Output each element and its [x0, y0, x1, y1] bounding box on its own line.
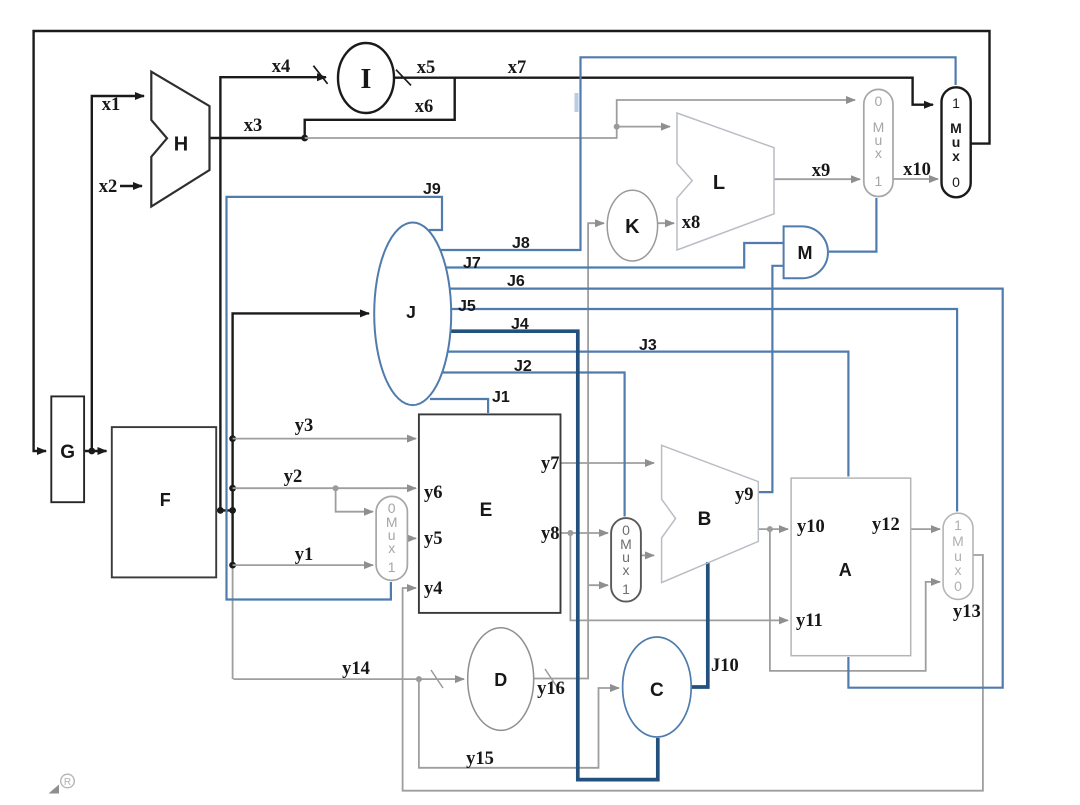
wire x9 from L to top mux input 1	[774, 178, 860, 180]
mux H trapezoid	[151, 72, 209, 207]
svg-text:1: 1	[954, 517, 962, 533]
svg-text:A: A	[839, 560, 852, 580]
svg-text:x10: x10	[903, 160, 931, 180]
wire y16 from D up to K and B-mux input 1	[534, 223, 604, 678]
svg-text:I: I	[361, 64, 372, 95]
svg-text:x5: x5	[417, 58, 436, 78]
svg-text:J9: J9	[423, 181, 441, 198]
svg-text:C: C	[650, 680, 664, 701]
wire G output to F input	[84, 450, 106, 452]
svg-text:x: x	[388, 540, 395, 556]
mux top gray (0 Mux 1)	[864, 89, 893, 196]
mux y13 (1 Mux 0)	[943, 513, 973, 599]
register G	[51, 396, 84, 502]
node x3/x6 junction	[301, 135, 308, 142]
svg-text:J6: J6	[507, 273, 525, 290]
wire y2 into E input y6	[233, 487, 416, 489]
wire x6 from x7 node down to x3 node	[305, 78, 455, 138]
wire J3 from J to A top	[446, 352, 848, 477]
svg-text:y13: y13	[953, 602, 981, 622]
svg-text:y8: y8	[541, 524, 560, 544]
node y14 tap	[416, 676, 422, 682]
svg-text:G: G	[60, 442, 75, 463]
svg-text:0: 0	[954, 578, 962, 594]
wire y14 to D	[233, 678, 464, 680]
svg-text:x9: x9	[812, 161, 831, 181]
block K ellipse	[607, 190, 657, 261]
bus slash on x4	[313, 66, 327, 84]
svg-text:J10: J10	[711, 656, 739, 676]
svg-text:x4: x4	[272, 57, 291, 77]
svg-text:y15: y15	[466, 749, 494, 769]
wire F output bus vertical with J input	[233, 313, 369, 566]
svg-text:M: M	[798, 243, 813, 263]
block I ellipse	[338, 43, 394, 113]
wire x3 gray extension to L and top mux 0 input	[305, 100, 855, 138]
svg-text:y12: y12	[872, 515, 900, 535]
svg-text:y2: y2	[284, 467, 303, 487]
wire F output short	[216, 509, 232, 511]
wire x1 from G/F node up into H input	[92, 96, 144, 451]
svg-text:B: B	[698, 509, 712, 530]
svg-text:J8: J8	[512, 235, 530, 252]
block J ellipse	[374, 222, 451, 405]
wire x2 branch into H input	[120, 185, 142, 187]
bus slash on y16	[545, 669, 557, 687]
svg-text:D: D	[494, 670, 507, 690]
mux near B (0 Mux 1)	[611, 518, 641, 602]
wire J5 from J to y13-mux select	[450, 309, 957, 512]
mux B trapezoid	[662, 445, 759, 582]
svg-text:1: 1	[875, 173, 883, 189]
svg-text:y16: y16	[537, 679, 565, 699]
svg-text:y5: y5	[424, 529, 443, 549]
wire x5/x7 from I to black Mux input 1	[394, 78, 933, 105]
wire x4 from F output node up to I	[220, 77, 326, 510]
register A	[791, 478, 911, 656]
bus slash on x5	[396, 70, 411, 86]
svg-text:J1: J1	[492, 389, 510, 406]
wire J2 from J to B-mux select	[440, 373, 625, 517]
svg-text:1: 1	[622, 581, 630, 597]
wire J1 from J to E top	[430, 399, 488, 413]
wire J9 from J to E-mux select	[227, 197, 443, 600]
svg-text:x8: x8	[682, 213, 701, 233]
wire y3 into E	[233, 438, 416, 440]
svg-text:J5: J5	[458, 298, 476, 315]
svg-text:0: 0	[875, 93, 883, 109]
svg-text:1: 1	[388, 559, 396, 575]
svg-text:J4: J4	[511, 316, 529, 333]
wire y12 from A to y13-mux input 1	[911, 528, 940, 530]
mux L trapezoid	[677, 113, 774, 250]
svg-text:F: F	[160, 490, 171, 510]
svg-text:R: R	[64, 777, 71, 788]
svg-text:x1: x1	[102, 95, 121, 115]
svg-text:x2: x2	[99, 177, 118, 197]
wire J8 from J to black mux select	[438, 57, 956, 250]
block E	[419, 414, 561, 613]
svg-text:J7: J7	[463, 255, 481, 272]
wire J10 from C to B bottom	[691, 562, 708, 687]
node F output dot 1	[217, 507, 224, 514]
wire y11 from y8 node into A	[570, 533, 788, 620]
wire K output x8 into L	[658, 222, 674, 224]
mux near E (0 Mux 1)	[376, 496, 407, 580]
node y2 tap	[229, 485, 236, 492]
wire y8 from E to B-mux input 0	[561, 532, 609, 534]
svg-text:0: 0	[952, 174, 960, 190]
svg-text:x: x	[952, 148, 960, 164]
wire y13 feedback from y13-mux output to E input y4	[403, 555, 983, 791]
svg-text:M: M	[952, 533, 964, 549]
svg-text:K: K	[625, 216, 640, 238]
wire y7 from E to B top input	[561, 462, 655, 464]
and gate M	[784, 226, 828, 278]
svg-text:L: L	[713, 172, 725, 194]
wire artifact light blue	[575, 93, 579, 112]
svg-text:x: x	[623, 562, 630, 578]
svg-text:y11: y11	[796, 611, 823, 631]
wire y2 branch into E-mux input 0	[336, 488, 373, 512]
node y2 branch	[333, 485, 339, 491]
node y3 tap	[229, 435, 236, 442]
watermark logo	[49, 774, 75, 793]
node y8 tap	[567, 530, 573, 536]
svg-text:y9: y9	[735, 485, 754, 505]
wire J7 from J to M input	[444, 243, 784, 268]
block D ellipse	[468, 628, 534, 731]
svg-text:y3: y3	[295, 416, 314, 436]
svg-text:x6: x6	[415, 97, 434, 117]
svg-text:J3: J3	[639, 337, 657, 354]
svg-text:1: 1	[952, 95, 960, 111]
bus slash on y14	[431, 670, 443, 688]
block C ellipse	[623, 637, 692, 737]
wire x3 from H output	[211, 137, 305, 139]
node y1 tap	[229, 562, 236, 569]
svg-text:E: E	[480, 500, 493, 521]
wire M output to gray mux select	[829, 198, 876, 252]
svg-text:y14: y14	[342, 659, 370, 679]
wire y16 branch into B-mux input 1	[588, 584, 608, 586]
svg-text:y10: y10	[797, 517, 825, 537]
svg-text:x: x	[875, 145, 882, 161]
node F output dot 2	[229, 507, 236, 514]
wire E-mux output to E input y5	[407, 537, 416, 539]
node G-F junction	[88, 448, 95, 455]
wire J4 from J to C bottom	[449, 331, 658, 779]
wire y15 from y14 node to C input	[419, 679, 619, 768]
wire B output loop to y13-mux input 0	[770, 529, 940, 671]
wire branch arrow into L top input	[617, 126, 670, 128]
wire feedback loop from Mux output to border and G input	[34, 31, 990, 451]
node branch to L	[614, 124, 620, 130]
wire y1 into E-mux input 1	[233, 564, 373, 566]
svg-text:x: x	[955, 562, 962, 578]
wire B-mux output to B bottom input	[641, 554, 654, 556]
mux top black (1 Mux 0)	[942, 87, 971, 197]
svg-text:y1: y1	[295, 545, 314, 565]
svg-text:J2: J2	[514, 358, 532, 375]
svg-text:y6: y6	[424, 483, 443, 503]
svg-text:x7: x7	[508, 58, 527, 78]
wire B output to A input y10	[758, 528, 788, 530]
svg-text:H: H	[174, 134, 188, 156]
svg-text:y4: y4	[424, 579, 443, 599]
wire J6 from J to A bottom	[448, 289, 1003, 688]
wire x10 from gray mux to black mux input 0	[893, 178, 938, 180]
node B output tap	[767, 526, 773, 532]
register F	[112, 427, 216, 577]
wire y9 from B to M input	[758, 266, 783, 492]
svg-text:x3: x3	[244, 116, 263, 136]
svg-text:y7: y7	[541, 454, 560, 474]
svg-text:J: J	[406, 302, 416, 322]
